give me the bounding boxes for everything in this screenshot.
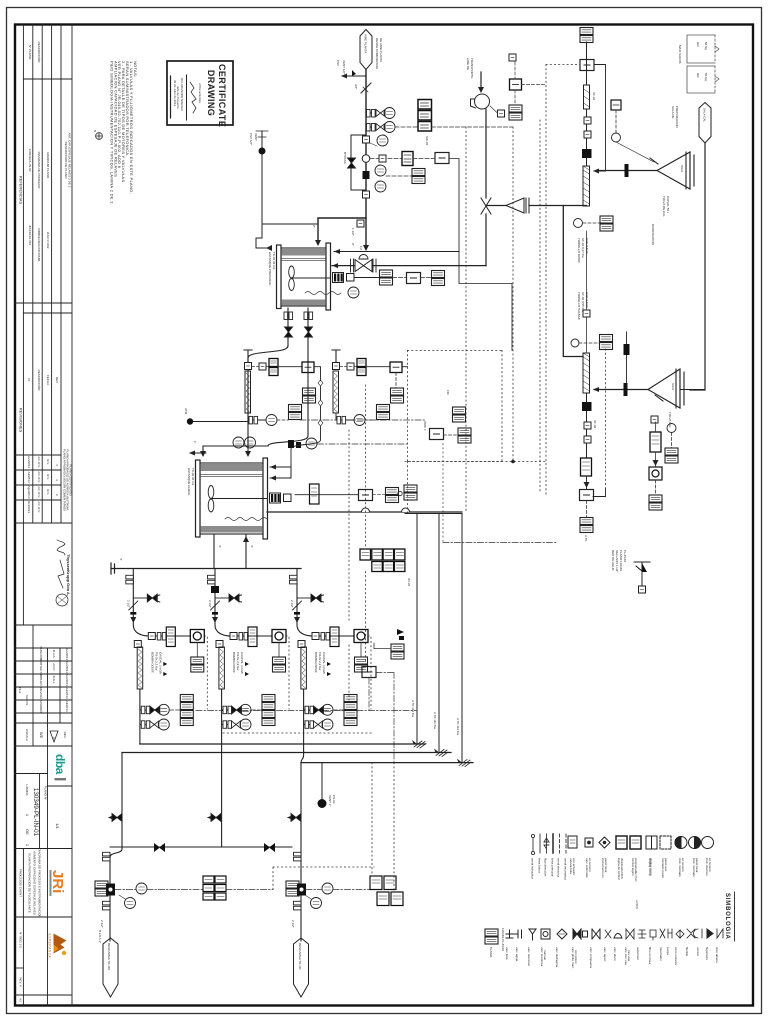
- line right to x605: [594, 65, 606, 172]
- svg-text:cono reductor: cono reductor: [674, 947, 678, 965]
- svg-text:Jun/2013: Jun/2013: [65, 661, 69, 674]
- instrument circle PI: [384, 108, 395, 119]
- svg-text:panel local: panel local: [695, 858, 699, 873]
- drain leg 1: [110, 753, 122, 942]
- svg-text:DESCARGA TK-111: DESCARGA TK-111: [298, 943, 302, 970]
- svg-text:valv. compuerta: valv. compuerta: [589, 947, 593, 968]
- svg-text:AUMENTO CAPACIDAD ESPESAJE REL: AUMENTO CAPACIDAD ESPESAJE RELAVES: [33, 851, 37, 915]
- svg-text:linea principal: linea principal: [551, 858, 555, 877]
- SIC box stack: [418, 100, 432, 132]
- svg-text:valv. alivio: valv. alivio: [613, 947, 617, 961]
- svg-text:TOLVA CAL: TOLVA CAL: [668, 412, 672, 428]
- svg-text:50 Kg: 50 Kg: [704, 73, 708, 81]
- instrument circle TI: [377, 135, 388, 146]
- T2 wavy level: [225, 518, 267, 521]
- svg-text:PLANTA PREPARACIÓN DE FLOCULAN: PLANTA PREPARACIÓN DE FLOCULANTE: [28, 853, 33, 912]
- svg-text:TE-b: TE-b: [18, 687, 22, 694]
- FY relay: [430, 429, 444, 440]
- svg-text:N° PLANO: N° PLANO: [28, 45, 32, 60]
- svg-text:J.C. R.V.: J.C. R.V.: [37, 471, 41, 483]
- svg-text:FIC: FIC: [446, 390, 450, 396]
- FY tag pair: [458, 428, 471, 443]
- svg-text:1/1: 1/1: [55, 823, 60, 829]
- svg-text:SF-02 0,55 Kw: SF-02 0,55 Kw: [581, 292, 585, 313]
- dosing train 2: [208, 569, 290, 745]
- agitator motor: [333, 273, 355, 283]
- svg-text:VENT: VENT: [254, 133, 258, 141]
- blower K-01: [471, 94, 490, 109]
- svg-text:tres vias: tres vias: [627, 950, 631, 962]
- screw conveyor 1 chain: [583, 166, 590, 206]
- svg-text:SILO: SILO: [680, 165, 684, 173]
- feeder A FY pair: [303, 388, 316, 403]
- svg-text:MAXI SACOS: MAXI SACOS: [678, 45, 682, 64]
- relay box: [435, 153, 449, 164]
- svg-text:SIMBOLOGIA: SIMBOLOGIA: [724, 893, 730, 940]
- HS pair: [580, 518, 593, 533]
- svg-text:J.C. R.V.: J.C. R.V.: [37, 486, 41, 498]
- svg-text:R.V.: R.V.: [46, 459, 50, 465]
- signal cluster 2: [370, 876, 403, 906]
- svg-text:manual: manual: [543, 950, 547, 960]
- svg-text:REVISÓ: REVISÓ: [39, 687, 44, 699]
- svg-text:RED DE AGUA: RED DE AGUA: [611, 550, 615, 571]
- certificate drawing stamp: [167, 61, 233, 127]
- svg-text:panel aux.: panel aux.: [664, 858, 668, 872]
- T2 outlet header: [267, 511, 462, 513]
- svg-text:DESCARGA TK-110: DESCARGA TK-110: [107, 943, 111, 970]
- svg-text:SIMBOLOGIA INSTRUM.: SIMBOLOGIA INSTRUM.: [37, 228, 41, 262]
- svg-text:DE AIRE PLANTA: DE AIRE PLANTA: [379, 38, 383, 62]
- svg-text:REFERENCIAS: REFERENCIAS: [19, 176, 24, 205]
- svg-text:DIBUJÓ: DIBUJÓ: [39, 674, 44, 686]
- svg-text:A TK 112 Kw: A TK 112 Kw: [456, 718, 460, 736]
- valve row 1: [366, 112, 384, 114]
- svg-text:1": 1": [193, 441, 197, 444]
- svg-text:DESDE COMPRESOR: DESDE COMPRESOR: [375, 38, 379, 70]
- feeder A control drop: [291, 367, 321, 465]
- pipe fitting: [363, 136, 370, 143]
- FE tall box: [581, 458, 592, 476]
- svg-text:Oct/2013: Oct/2013: [27, 501, 31, 514]
- tank T2 body: [196, 458, 268, 539]
- svg-text:2": 2": [312, 225, 316, 228]
- arrow into tank T1: [315, 240, 321, 246]
- svg-text:PREPARACION: PREPARACION: [675, 106, 679, 128]
- banner SALA: [699, 103, 711, 144]
- T2 level circles: [288, 440, 294, 448]
- svg-text:purga: purga: [666, 947, 670, 955]
- box pair: [412, 169, 425, 184]
- T2 motor: [270, 493, 292, 503]
- svg-text:30 de Julio de 2013: 30 de Julio de 2013: [173, 80, 177, 107]
- svg-text:TORNILLO DOSIF.: TORNILLO DOSIF.: [577, 238, 581, 264]
- svg-text:Jul/2013: Jul/2013: [27, 471, 31, 483]
- feeder B FY pair: [391, 388, 404, 403]
- svg-text:R.V.: R.V.: [46, 489, 50, 495]
- svg-text:130349-PL-IN-01: 130349-PL-IN-01: [32, 788, 39, 837]
- names/date grid: [15, 625, 72, 723]
- svg-text:valv. tapon: valv. tapon: [603, 947, 607, 962]
- dba logo band: [15, 746, 72, 849]
- svg-text:4": 4": [250, 545, 254, 548]
- svg-text:senal neumatica: senal neumatica: [564, 858, 568, 880]
- svg-text:Jun/2013: Jun/2013: [65, 674, 69, 687]
- SC diamond box: [611, 100, 621, 110]
- svg-text:SELLADO 1 1/2": SELLADO 1 1/2": [615, 550, 619, 572]
- svg-text:Jun/2013: Jun/2013: [27, 456, 31, 469]
- LS circle screw2: [571, 339, 579, 347]
- svg-text:PSV: PSV: [336, 60, 340, 66]
- blower discharge: [485, 109, 487, 266]
- svg-text:dren abierto: dren abierto: [715, 947, 719, 963]
- signal line right: [432, 126, 514, 128]
- svg-text:flujometro: flujometro: [705, 947, 709, 961]
- svg-text:2": 2": [351, 243, 355, 246]
- drain valve 1: [109, 817, 122, 819]
- signal bus: [196, 710, 416, 712]
- svg-text:PLANO CERTIFICADO: PLANO CERTIFICADO: [69, 464, 73, 496]
- T2 bottom outlet: [214, 534, 246, 569]
- line from banner to silo2: [690, 143, 705, 390]
- solid header to pump trains: [405, 513, 462, 515]
- svg-text:1 1/2": 1 1/2": [351, 228, 355, 236]
- mid small boxes x418: [397, 629, 404, 635]
- signal drop x466: [465, 127, 467, 512]
- svg-text:DRAWING: DRAWING: [206, 70, 216, 116]
- relay box mid: [362, 667, 376, 678]
- svg-text:SIC-01: SIC-01: [425, 136, 429, 146]
- svg-text:o DCS: o DCS: [635, 900, 639, 909]
- discharge banner 3: [294, 938, 309, 997]
- svg-text:B 1/2 A 1": B 1/2 A 1": [98, 930, 102, 943]
- flange leg3: [294, 852, 302, 861]
- silo2 triangle: [648, 369, 684, 408]
- dosing train 1: [126, 569, 208, 745]
- feeder A rotameter: [245, 371, 251, 413]
- drain leg 2: [221, 744, 223, 847]
- drain valve 3: [288, 817, 301, 819]
- drawing number: [25, 784, 60, 846]
- svg-text:Jul/2013: Jul/2013: [65, 700, 69, 712]
- instrument cluster 8box: [360, 549, 405, 572]
- HS box: [580, 60, 594, 71]
- svg-text:J.C.P.: J.C.P.: [52, 663, 56, 671]
- svg-text:of the activities: of the activities: [198, 83, 202, 103]
- notes text block: [109, 61, 137, 205]
- bypass loop: [351, 135, 366, 190]
- level wavy line: [305, 292, 341, 295]
- svg-text:AIRE PLANTA: AIRE PLANTA: [364, 34, 368, 53]
- silo2 slope instruments: [655, 395, 663, 401]
- REFERENCIAS header text: [19, 42, 51, 205]
- feeder B FIC: [366, 366, 390, 368]
- legend extra text rows: [543, 858, 668, 964]
- legend row2 symbols: [506, 929, 723, 940]
- svg-text:PLANO N°: PLANO N°: [44, 786, 48, 801]
- signal drops: [371, 763, 373, 876]
- JRi orange logo: [49, 870, 66, 896]
- svg-text:VENT 1": VENT 1": [328, 795, 332, 807]
- svg-text:ThyssenKrupp Gda A.: ThyssenKrupp Gda A.: [66, 554, 71, 596]
- svg-text:CAP. 0,5 t/h: CAP. 0,5 t/h: [585, 238, 589, 254]
- ball vent: [321, 763, 323, 799]
- svg-text:SF-01 0,37 Kw: SF-01 0,37 Kw: [581, 238, 585, 259]
- svg-text:N: N: [93, 130, 97, 132]
- svg-text:BYPASS: BYPASS: [343, 152, 347, 164]
- silo1 outlet pipe: [596, 170, 657, 172]
- svg-text:filtro en linea: filtro en linea: [648, 947, 652, 964]
- solid link x605: [593, 488, 606, 497]
- discharge banner 1: [103, 938, 118, 997]
- svg-text:P&ID SIMBOLOGIA INSTRUMENTACIO: P&ID SIMBOLOGIA INSTRUMENTACION Y TIPICO…: [109, 61, 114, 205]
- svg-text:DIAGRAMA DE PROCESO: DIAGRAMA DE PROCESO: [37, 152, 41, 189]
- brace note box 1: [687, 35, 719, 63]
- T2 dosing inlets: [270, 465, 291, 478]
- T2 shaft instruments: [310, 484, 320, 504]
- brace note box 2: [687, 66, 719, 93]
- svg-text:APROBÓ: APROBÓ: [39, 700, 44, 714]
- check valve 2: [264, 843, 275, 852]
- svg-text:dba: dba: [53, 754, 67, 775]
- flow continuation marks: [414, 741, 471, 767]
- tank T1 outlets: [288, 308, 308, 346]
- svg-text:SALA CAL: SALA CAL: [703, 108, 707, 123]
- svg-text:panel local: panel local: [604, 858, 608, 873]
- check valve 1: [154, 843, 165, 852]
- svg-text:senal electrica: senal electrica: [557, 858, 561, 878]
- cross line: [110, 846, 292, 848]
- svg-text:valv. aguja: valv. aguja: [515, 947, 519, 961]
- escala band + warning triangle: [15, 723, 72, 746]
- svg-text:JRi: JRi: [49, 870, 66, 893]
- svg-text:ATM: ATM: [184, 408, 188, 415]
- svg-text:ADENDUM PLANO: ADENDUM PLANO: [46, 152, 50, 179]
- svg-text:ESTANQUE ALMAC.: ESTANQUE ALMAC.: [187, 468, 191, 496]
- svg-text:venturi: venturi: [696, 947, 700, 956]
- svg-text:A TK: A TK: [584, 535, 588, 541]
- inlet line right top: [334, 251, 459, 253]
- legend row1 symbols: [568, 836, 714, 849]
- fitting under elbow: [357, 220, 364, 227]
- signal drop to relay: [365, 385, 367, 666]
- vent stack tank1: [262, 131, 318, 224]
- feeder B rotameter: [333, 371, 339, 413]
- svg-text:Ago/2013: Ago/2013: [27, 486, 31, 499]
- elbow into tank left: [256, 224, 266, 248]
- svg-text:ESTANQUE PREPARAC.: ESTANQUE PREPARAC.: [268, 252, 272, 286]
- tank T2 agitator: [208, 486, 267, 513]
- main air pipe: [318, 70, 366, 245]
- feeder B inst boxes: [377, 405, 390, 420]
- svg-text:reduccion: reduccion: [636, 947, 640, 960]
- valve row 2: [366, 126, 384, 128]
- svg-text:3/4": 3/4": [354, 84, 358, 89]
- svg-text:ESPERANZA: ESPERANZA: [48, 934, 52, 959]
- svg-text:programable PLC: programable PLC: [634, 858, 638, 882]
- svg-text:50 Kg: 50 Kg: [704, 42, 708, 50]
- extra referencias entries: [28, 133, 72, 263]
- flowmeter assembly 3: [286, 881, 299, 896]
- svg-text:distribuido DCS: distribuido DCS: [620, 858, 624, 879]
- air line into tank1: [332, 265, 486, 267]
- dosing train 3: [290, 569, 372, 745]
- svg-text:DOSIFICADOR: DOSIFICADOR: [651, 224, 655, 246]
- svg-text:N° REG 1-5: N° REG 1-5: [19, 932, 23, 948]
- HIC box: [580, 490, 594, 501]
- svg-text:valv. bola: valv. bola: [505, 947, 509, 960]
- feeder A inlet fitting: [245, 363, 252, 370]
- pipe fitting2: [363, 191, 370, 198]
- discharge header L1: [140, 743, 426, 745]
- LI circle: [348, 287, 359, 298]
- solenoid: [363, 171, 370, 179]
- flange leg1: [103, 852, 111, 861]
- 6box cluster: [203, 876, 226, 900]
- svg-text:TRANSPORTE: TRANSPORTE: [470, 58, 474, 78]
- esperanza mountain logo: [48, 934, 67, 959]
- svg-text:J.C. R.V.: J.C. R.V.: [37, 501, 41, 513]
- blower control cluster: [509, 54, 516, 61]
- silo2 outlet pipe: [594, 389, 648, 391]
- feeder B header tick: [332, 350, 340, 362]
- off-page banner AIRE DE PLANTA: [360, 30, 372, 70]
- svg-text:R.V.: R.V.: [46, 474, 50, 480]
- svg-text:4": 4": [119, 558, 123, 561]
- svg-text:mezclador: mezclador: [659, 947, 663, 961]
- svg-text:senal hidraulica: senal hidraulica: [531, 858, 535, 879]
- svg-text:4": 4": [218, 545, 222, 548]
- svg-text:SHEVS: SHEVS: [25, 695, 29, 705]
- silo 1 triangle: [657, 152, 694, 189]
- flowmeter assembly 1: [95, 881, 108, 896]
- svg-text:110-P-P-002: 110-P-P-002: [46, 232, 50, 249]
- svg-text:J.C. R.V.: J.C. R.V.: [37, 456, 41, 468]
- PSH box pair top: [580, 28, 593, 43]
- feeder B inlet fitting: [333, 363, 340, 370]
- svg-text:Jun/2013: Jun/2013: [65, 648, 69, 661]
- signal line to SIC stack: [395, 126, 418, 128]
- feeder B transmitter pair: [357, 359, 366, 376]
- Esperanza band: [15, 917, 72, 1006]
- svg-text:130349-PL-IN-02: 130349-PL-IN-02: [501, 928, 505, 951]
- svg-text:A3: A3: [19, 998, 23, 1002]
- svg-text:linea futura: linea futura: [538, 858, 542, 873]
- drain valve 2: [208, 817, 222, 819]
- svg-text:con piston: con piston: [574, 950, 578, 964]
- misc labels: [218, 92, 672, 587]
- svg-text:TK-02 60 m3: TK-02 60 m3: [191, 468, 195, 486]
- svg-text:REV.: REV.: [63, 732, 67, 739]
- T2 inlet circles: [233, 437, 244, 448]
- discharge header L3: [301, 762, 473, 764]
- dotted control loop: [405, 351, 547, 514]
- LSH circle + boxes at screw1: [574, 219, 583, 228]
- svg-text:2 1/2": 2 1/2": [291, 920, 295, 928]
- legend line samples: [531, 834, 566, 855]
- dotted x540: [539, 120, 541, 493]
- tank T1 agitator: [289, 266, 330, 291]
- JRi band: [15, 849, 72, 918]
- svg-text:REV. 4: REV. 4: [19, 977, 23, 987]
- svg-text:N.G.L.: N.G.L.: [52, 676, 56, 685]
- feeder B link to loop: [402, 366, 408, 368]
- svg-text:PU-04: PU-04: [332, 795, 336, 804]
- discharge header L2: [122, 752, 451, 754]
- drain leg 3: [301, 744, 304, 941]
- svg-text:PLANO 130349: PLANO 130349: [619, 550, 623, 571]
- small vent left of tank2: [190, 452, 206, 454]
- bypass black valve: [348, 158, 356, 168]
- instrument circle PI2: [384, 122, 395, 133]
- svg-text:PSV 1/2": PSV 1/2": [249, 133, 253, 145]
- svg-text:AIRE DE: AIRE DE: [466, 58, 470, 70]
- svg-text:en terreno: en terreno: [708, 858, 712, 872]
- title strip: REFERENCIAS table: [15, 25, 72, 1006]
- svg-text:DESCRIPCIÓN: DESCRIPCIÓN: [37, 42, 42, 63]
- svg-text:TOLVA DE CAL: TOLVA DE CAL: [662, 196, 666, 217]
- svg-text:CAPAC. 50 t: CAPAC. 50 t: [666, 196, 670, 213]
- node circle: [362, 155, 370, 163]
- svg-text:con actuador: con actuador: [572, 858, 576, 875]
- svg-text:VENT 1/2": VENT 1/2": [342, 60, 346, 74]
- svg-text:display comp: display comp: [649, 858, 653, 876]
- legend row1 texts: [531, 858, 568, 880]
- svg-text:PLANO: PLANO: [489, 947, 493, 958]
- drain stub feeder A: [193, 421, 248, 423]
- svg-text:1": 1": [367, 130, 371, 133]
- svg-text:DE: DE: [25, 829, 30, 835]
- feeder A circle+valves: [248, 416, 266, 420]
- svg-text:DESCRIPCIÓN: DESCRIPCIÓN: [37, 370, 42, 391]
- svg-text:JR-049-02-702: JR-049-02-702: [28, 225, 32, 245]
- svg-text:Jul/2013: Jul/2013: [65, 687, 69, 699]
- svg-text:en terreno: en terreno: [681, 858, 685, 872]
- plano ref box: [485, 929, 498, 944]
- svg-text:2 1/2": 2 1/2": [100, 920, 104, 928]
- control valve FV: [351, 255, 377, 273]
- SS pair right: [600, 335, 613, 350]
- svg-text:flujo direccion: flujo direccion: [544, 858, 548, 877]
- svg-text:TK-01 30 m3: TK-01 30 m3: [272, 252, 276, 270]
- screw conveyor 2 chain: [586, 231, 588, 353]
- svg-text:DIAGRAMA DE PROCESO E INSTRUME: DIAGRAMA DE PROCESO E INSTRUMENTACIÓN: [38, 848, 43, 917]
- feeder A header tick: [244, 350, 252, 362]
- vent tee w/ PSV: [342, 75, 366, 77]
- svg-text:valv. retencion: valv. retencion: [527, 947, 531, 966]
- feeder A FIC: [278, 366, 302, 368]
- svg-text:FECHA: FECHA: [46, 375, 50, 385]
- svg-text:en terreno: en terreno: [588, 858, 592, 872]
- svg-text:DESCRIPCION DE PLANO: DESCRIPCION DE PLANO: [64, 142, 68, 180]
- svg-text:PROCESOS CHENT: PROCESOS CHENT: [19, 869, 23, 897]
- svg-text:A TK 110 Kw: A TK 110 Kw: [411, 700, 415, 718]
- dotted to left x546: [546, 64, 580, 66]
- svg-text:ANT. CAP. ESPESAJE RELAVES 2 D: ANT. CAP. ESPESAJE RELAVES 2 DE 2: [68, 133, 72, 188]
- rotary feeder triangle: [506, 198, 529, 213]
- shaft instrument row: [355, 277, 379, 279]
- svg-text:SF-02: SF-02: [593, 420, 597, 429]
- svg-text:REVISIONES: REVISIONES: [19, 408, 24, 433]
- reducer slash: [361, 83, 371, 93]
- feeder A transmitter pair: [269, 359, 278, 376]
- svg-text:130349-PL-IN-02: 130349-PL-IN-02: [28, 148, 32, 171]
- svg-text:PROYECTÓ: PROYECTÓ: [39, 659, 44, 677]
- svg-text:REV: REV: [55, 377, 59, 383]
- svg-text:CAP. 0,5 t/h: CAP. 0,5 t/h: [585, 292, 589, 308]
- svg-text:LÁMINA: LÁMINA: [25, 784, 29, 795]
- feeder A inst boxes: [289, 405, 302, 420]
